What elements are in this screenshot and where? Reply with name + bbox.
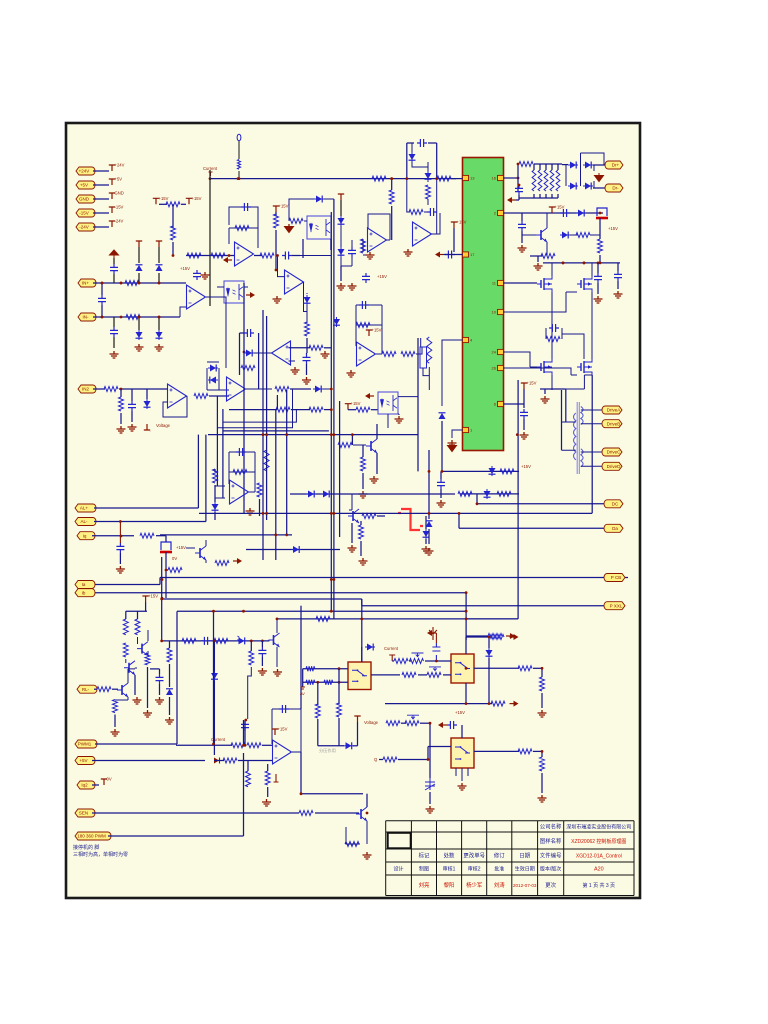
resistor R34 [546,337,560,342]
IC U5 body [463,158,504,451]
resistor R75 [246,771,251,787]
wire IN- bend [180,307,186,317]
wire [92,784,99,786]
wire [134,675,136,695]
wire [371,674,400,676]
resistor R40 [104,387,118,392]
diode D21 [208,367,218,369]
op-amp U6B [227,377,246,401]
resistor RN1 [532,170,536,191]
zener D10 [411,152,413,162]
wire [533,194,535,198]
wire [119,553,121,564]
transistor Q8b [121,685,123,695]
wire [521,231,523,243]
power cap mark [429,627,437,640]
wire bend [466,618,518,620]
resistor R65 [135,619,140,635]
wire [267,764,269,771]
pin right 26 [498,365,504,370]
wire [565,389,567,422]
wire [261,657,263,666]
junction [517,177,520,180]
wire [541,773,543,793]
svg-text:批准: 批准 [494,866,504,873]
resistor R50 [356,407,370,412]
junction [351,433,354,436]
sheet entry 180/360 [75,832,111,840]
junction [330,610,333,613]
svg-text:+15V: +15V [455,710,465,715]
wire [503,212,603,214]
sheet entry Iq [77,532,95,540]
wire Q6Q7 [126,630,148,668]
capacitor C15 [427,208,437,216]
wire main top bus [210,178,456,180]
op-amp U1B [285,270,304,294]
wire [205,435,207,522]
wire [244,720,246,745]
wire [503,282,537,284]
svg-text:24: 24 [492,350,497,355]
svg-text:生效日期: 生效日期 [515,866,535,873]
wire U6A feedback [163,396,187,417]
capacitor C22 [549,324,559,332]
svg-text:.: . [150,428,151,433]
wire [544,389,546,394]
wire [465,593,467,640]
junction [158,282,161,285]
diode D7 [314,198,324,200]
svg-text:+24V: +24V [115,163,125,168]
ground [541,396,550,403]
resistor R25 [389,190,394,204]
junction [516,433,519,436]
junction [161,578,164,581]
resistor R56 [213,469,218,483]
wire [169,697,171,715]
trimmer cap C35 [425,778,435,790]
svg-text:16: 16 [492,176,497,181]
capacitor C17 [515,185,523,195]
wire [539,164,541,170]
potentiometer RP1 [405,721,419,726]
wire [488,637,490,648]
power ground [285,224,294,233]
power arrow [228,259,232,261]
resistor RN5 [556,170,560,191]
sheet entry DriveA [602,406,622,414]
wire [213,681,215,755]
capacitor C8 [98,295,106,305]
transistor Q9 [273,635,275,645]
resistor R95 [324,680,333,685]
svg-text:IN2: IN2 [82,387,90,392]
junction [597,262,600,265]
wire [351,523,353,543]
junction [435,177,438,180]
wire bus y599 [162,598,362,600]
sheet entry AL- [75,518,96,526]
wire [112,688,118,690]
wire L2 [217,389,292,428]
ground [165,717,174,724]
junction [138,316,141,319]
op-amp U4A [413,222,432,246]
wire bus [208,434,418,436]
sheet entry +5V [75,757,95,765]
MOSFET M3 [541,361,544,373]
capacitor C12 [348,247,356,257]
wire [302,669,304,687]
svg-text:杨少军: 杨少军 [466,881,482,889]
ground [348,545,357,552]
ground [614,291,623,298]
svg-text:Da: Da [612,526,618,531]
ground [359,491,368,498]
power symbol [144,424,150,430]
diode D41 [244,352,254,354]
diode D34 [365,646,375,648]
wire [207,362,229,390]
svg-text:180 360 PWM: 180 360 PWM [77,834,106,839]
wire [420,722,430,724]
wire [306,364,308,375]
power ground [595,173,604,182]
wire [407,179,437,234]
junction [338,667,341,670]
ground [422,546,431,553]
diode D32 [214,671,216,681]
wire transformer left taps [562,422,576,450]
junction [390,177,393,180]
wire [113,258,115,264]
wire [209,395,229,397]
wire [421,338,430,390]
sheet entry P CB [604,574,625,582]
transistor Q8 [360,809,362,819]
svg-text:更改单号: 更改单号 [463,852,485,860]
wire [503,177,518,179]
resistor R55 [233,470,247,475]
wire [551,194,553,198]
diode D29 [291,549,301,551]
wire [169,664,171,687]
resistor R46 [356,323,370,328]
wire [428,746,451,748]
svg-text:+5V: +5V [115,177,123,182]
power arrow [233,560,237,562]
svg-text:接停机的 脚: 接停机的 脚 [73,844,99,851]
junction [390,177,393,180]
wire [453,228,455,252]
wire [238,760,272,762]
junction [330,408,333,411]
resistor R64 [123,619,128,635]
junction [120,316,123,319]
resistor R80 [402,672,416,677]
wire [114,699,116,701]
ground [426,806,435,813]
wire [138,247,140,263]
svg-text:Voltage: Voltage [156,423,171,428]
junction [405,177,408,180]
wire [159,203,167,205]
wire [391,179,393,190]
capacitor C40 [244,329,254,337]
svg-text:DriveB: DriveB [607,421,621,426]
wire bridge [566,153,604,188]
wire [362,445,364,457]
wire [247,761,249,772]
transistor Q3 [370,441,372,451]
wire [267,787,269,797]
resistor R33 [541,254,555,259]
wire [489,636,492,638]
resistor R19 [289,219,303,224]
resistor R59 [458,491,472,496]
wire [597,263,599,273]
resistor R17 [260,253,274,258]
junction [158,316,161,319]
junction [274,534,277,537]
junction [209,177,212,180]
analog switch U11 [348,662,371,690]
ground [337,283,346,290]
capacitor C18 [518,221,526,231]
pin left 4 [463,337,469,342]
pin right 24 [498,349,504,354]
ground [518,245,527,252]
resistor R49 [427,337,432,363]
junction [465,591,468,594]
MOSFET M4 [581,361,584,373]
wire [441,470,519,472]
diode D12 [441,421,443,431]
resistor R73 [299,811,313,816]
junction [138,316,141,319]
wire [214,512,216,520]
resistor R90 [488,634,502,639]
resistor R97 [249,651,254,665]
capacitor C6 [282,252,292,260]
wire [186,255,235,257]
power symbol +15V [136,241,142,247]
wire bus P XXL [362,605,625,607]
resistor R81 [394,659,408,664]
junction [276,254,279,257]
resistor R79 [241,366,255,371]
wire [289,347,311,349]
sheet entry Ib [75,589,95,597]
wire rail [126,610,147,612]
junction [333,578,336,581]
svg-text:P XXL: P XXL [610,603,623,608]
diode D at x139 up [138,273,140,283]
wire U7A out [244,352,272,354]
wire [474,750,519,752]
wire [530,255,542,257]
diode D42 [313,388,323,390]
ground [116,566,125,573]
svg-text:审核1: 审核1 [443,866,456,873]
wire [545,164,547,170]
wire [537,256,539,262]
wire [418,674,427,676]
ground [366,252,375,259]
ground [370,476,379,483]
wire [93,388,105,390]
resistor R87 [540,757,545,771]
resistor R52 [361,457,366,471]
resistor R43 [275,387,289,392]
zener mark [238,636,240,641]
potentiometer RP3 [410,659,424,664]
waveform mark [401,509,420,530]
wire left stub [301,687,305,689]
wire [474,667,519,669]
wire vertical [222,409,224,498]
wire [229,409,277,411]
wire [324,347,331,349]
junction [138,282,141,285]
resistor R12 [166,202,180,207]
svg-text:更次: 更次 [545,881,556,889]
wire [440,471,442,479]
wire U7A in2 [289,360,296,362]
sheet entry DC [604,500,623,508]
wire [593,187,607,189]
wire vertical [275,409,277,560]
wire bus [199,512,592,514]
svg-text:+15V: +15V [521,464,531,469]
junction [244,744,247,747]
wire [93,212,109,214]
resistor R74 [345,842,359,847]
wire U6B out [246,388,272,390]
resistor R88 [315,704,320,718]
wire vertical [213,611,215,744]
resistor R22 [361,239,366,253]
resistor R14 [187,253,201,258]
junction [237,177,240,180]
resistor R96 [214,638,228,643]
resistor R84 [540,677,545,691]
wire [113,317,115,327]
wire [340,266,342,281]
wire [349,494,352,510]
svg-text:RL-: RL- [82,687,90,692]
wire [440,489,442,498]
wire [120,413,122,424]
wire [159,684,161,695]
ground [128,424,137,431]
resistor R64b [123,643,128,657]
zener D31 [169,697,171,707]
wire Q8e [346,821,367,844]
junction [120,535,123,538]
diode D17 [576,212,586,214]
wire feedback2 [229,207,258,228]
wire [360,541,362,556]
wire [428,529,430,544]
wire [137,611,139,619]
wire [92,535,134,537]
svg-text:GND: GND [79,197,90,202]
wire [617,263,619,271]
resistor R11 [437,176,451,181]
wire [240,332,245,334]
junction [427,758,430,761]
optocoupler U8 [378,392,398,414]
wire [593,164,607,166]
sheet entry IN+ [78,279,96,287]
sheet entry IN2 [78,385,96,393]
svg-text:+15V: +15V [555,205,565,210]
sheet entry PWM1 [75,740,97,748]
wire vertical x244 [243,283,245,513]
capacitor C31 [279,705,289,713]
resistor RN4 [550,170,554,191]
power arrow [246,294,250,296]
junction [101,316,104,319]
wire [541,693,543,708]
ground [111,729,120,736]
resistor RN2 [538,170,542,191]
svg-text:审核2: 审核2 [468,866,481,873]
power symbol shield [110,250,119,258]
wire [214,760,224,762]
transistor Q7 [128,663,130,673]
ground [262,799,271,806]
wire chain [162,640,269,642]
junction [172,254,175,257]
wire vertical [361,599,363,662]
wire [557,164,559,170]
resistor R94 [306,680,315,685]
wire [521,213,523,221]
junction [250,640,253,643]
junction [330,512,333,515]
wire [557,194,559,198]
wire2 [330,239,332,250]
transistor Q4 [352,511,354,521]
diode D at x159 up [158,273,160,283]
diode D14 [583,164,593,166]
wire U3 loop [289,199,334,221]
ground [538,710,547,717]
potentiometer RP1 wiper [407,715,419,719]
junction [435,660,438,663]
junction [541,750,544,753]
svg-text:10: 10 [492,310,497,315]
wire [159,578,161,585]
diode D22 [208,379,218,381]
capacitor C13 [362,273,370,283]
svg-text:版本/版次: 版本/版次 [540,866,561,873]
svg-text:处数: 处数 [444,852,455,860]
wire [428,142,437,144]
resistor R18 [274,214,279,228]
wire [436,143,438,179]
svg-text:Voltage: Voltage [364,720,379,725]
wire [315,812,359,814]
junction [244,719,247,722]
wire [517,164,519,192]
resistor R91 [316,616,330,621]
junction [265,512,268,515]
capacitor C41 [201,637,211,645]
